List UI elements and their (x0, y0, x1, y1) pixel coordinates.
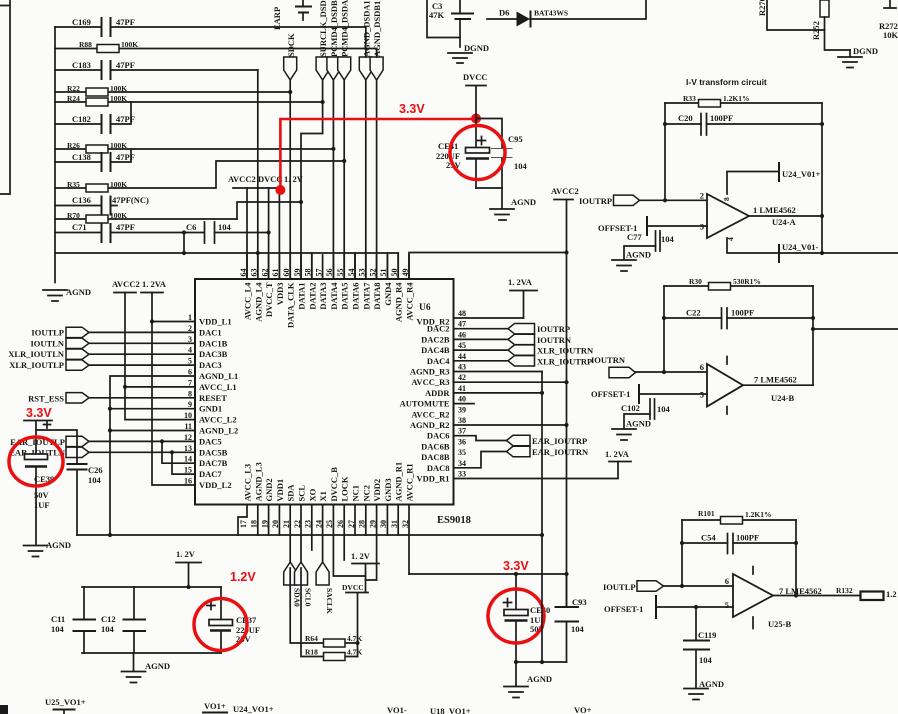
node U6 pin 48 VDD_R2 (416, 309, 466, 327)
capacitor C182 (55, 102, 135, 133)
node I-V transform circuit title (686, 77, 767, 87)
svg-text:42: 42 (458, 373, 466, 382)
node U24_V01+ (727, 163, 821, 194)
wire pin48 VDD_R2 (454, 317, 524, 319)
connector IOUTRN to pin6 (609, 367, 636, 377)
svg-text:3.3V: 3.3V (503, 559, 529, 573)
svg-text:VDD_R1: VDD_R1 (416, 474, 449, 484)
node U6 pin 49 AVCC_R4 (401, 255, 415, 321)
wire AGND rail bottom right (514, 660, 567, 664)
svg-text:EAR_IOUTRP: EAR_IOUTRP (532, 436, 587, 446)
svg-text:62: 62 (260, 269, 269, 277)
wire pin23 XO stub (311, 505, 313, 551)
svg-text:2: 2 (700, 191, 704, 201)
svg-text:DAC5B: DAC5B (199, 447, 228, 457)
svg-text:PCMD4_DSDB1: PCMD4_DSDB1 (329, 0, 339, 57)
svg-text:44: 44 (458, 352, 466, 361)
svg-text:DVCC_T: DVCC_T (264, 282, 274, 317)
node U6 pin 16 VDD_L2 (184, 477, 232, 491)
svg-text:C169: C169 (72, 17, 91, 27)
node U6 pin 60 DATA_CLK (282, 255, 296, 328)
svg-text:34: 34 (458, 459, 466, 468)
svg-text:AGND_L1: AGND_L1 (199, 371, 238, 381)
svg-text:IOUTRN: IOUTRN (537, 335, 572, 345)
connector EAR_IOUTLP (10, 436, 89, 447)
svg-text:4.7K: 4.7K (347, 634, 362, 643)
node U6 pin 36 DAC6B (421, 437, 466, 451)
connector SCL0 (295, 505, 313, 607)
capacitor C95 (476, 119, 528, 189)
wire U24A feedback right (820, 103, 824, 253)
svg-text:BAT43WS: BAT43WS (534, 9, 568, 18)
svg-text:RST_ESS: RST_ESS (28, 394, 64, 404)
node U6 pin 19 GND2 (260, 478, 274, 528)
node 1.2V power bottom left (176, 549, 201, 587)
node 1.2VA power mid right (605, 449, 631, 462)
svg-text:C138: C138 (72, 152, 91, 162)
svg-text:U6: U6 (419, 303, 431, 313)
node bottom labels U25_VO1+ (45, 697, 86, 714)
node left bus AGND (54, 27, 56, 283)
svg-text:IOUTRN: IOUTRN (591, 355, 626, 365)
svg-text:ADDR: ADDR (425, 388, 450, 398)
svg-text:1. 2V: 1. 2V (176, 549, 196, 559)
svg-text:C26: C26 (88, 465, 103, 475)
svg-text:58: 58 (304, 269, 313, 277)
capacitor C169 (55, 17, 366, 36)
svg-text:AVCC2: AVCC2 (112, 279, 140, 289)
ground AGND U24B (612, 419, 651, 441)
svg-text:R101: R101 (698, 509, 715, 518)
node U6 pin 54 DATA6 (347, 255, 361, 310)
svg-text:EARP: EARP (272, 7, 282, 30)
resistor R132 (836, 586, 884, 600)
svg-text:IOUTLP: IOUTLP (603, 582, 636, 592)
wire AGND vertical from pin43 (540, 372, 544, 663)
svg-text:DATA8: DATA8 (372, 283, 382, 310)
svg-text:47PF: 47PF (116, 152, 135, 162)
svg-text:AVCC_R4: AVCC_R4 (405, 282, 415, 321)
svg-text:1. 2VA: 1. 2VA (605, 449, 630, 459)
svg-text:VO1-: VO1- (387, 705, 407, 714)
svg-text:D6: D6 (499, 8, 509, 18)
wire U24B feedback left (662, 286, 666, 374)
node U6 pin 29 VDD2 (368, 479, 382, 528)
svg-text:GND1: GND1 (199, 404, 222, 414)
node AVCC2 label U24A (551, 186, 579, 200)
wire EAR_IOUTLP to DAC5 (89, 440, 195, 442)
svg-text:XLR_IOUTLN: XLR_IOUTLN (8, 349, 65, 359)
svg-text:VO1+: VO1+ (204, 701, 226, 711)
capacitor C26 (36, 430, 103, 535)
node power labels AVCC2 DVCC 1.2V (228, 174, 304, 188)
svg-text:DVCC: DVCC (342, 583, 364, 592)
node red 1.2 label right edge (886, 589, 897, 599)
node U6 pin 52 DATA8 (368, 255, 382, 310)
capacitor C3 (429, 0, 473, 47)
svg-text:DAC5: DAC5 (199, 436, 222, 446)
svg-text:DGND: DGND (853, 46, 878, 56)
svg-text:100PF: 100PF (736, 533, 759, 543)
svg-text:DVCC: DVCC (463, 72, 488, 82)
capacitor C12 (101, 587, 145, 653)
svg-text:VDD_L1: VDD_L1 (199, 317, 232, 327)
svg-text:AGND_R3: AGND_R3 (410, 367, 450, 377)
resistor R24 (55, 94, 323, 106)
svg-text:5: 5 (725, 600, 729, 610)
svg-text:AVCC_R3: AVCC_R3 (411, 377, 449, 387)
svg-text:3.3V: 3.3V (399, 102, 425, 116)
connector IOUTRP right (454, 324, 570, 335)
svg-text:DAC7: DAC7 (199, 469, 222, 479)
capacitor CE39 (25, 421, 55, 544)
wire AGND_DSDB1 to DATA7 (376, 49, 378, 280)
node bottom label VO+ (574, 705, 592, 714)
node U6 pin 4 DAC3B (188, 346, 228, 360)
node U6 pin 8 RESET (188, 389, 227, 403)
connector AGND_DSDA1 (359, 0, 372, 80)
svg-text:CE41: CE41 (438, 141, 458, 151)
svg-text:NC1: NC1 (351, 485, 361, 502)
svg-text:U24-A: U24-A (772, 217, 796, 227)
connector SDCK (284, 33, 297, 80)
node U6 pin 12 DAC5 (184, 433, 222, 447)
svg-text:DAC2B: DAC2B (421, 334, 450, 344)
wire pin26 LOCK stub (343, 505, 345, 561)
svg-text:AGND: AGND (626, 250, 651, 260)
node bottom label VO1- (387, 705, 407, 714)
svg-text:R22: R22 (67, 84, 80, 93)
svg-text:DATA4: DATA4 (329, 282, 339, 310)
node U6 pin 6 AGND_L1 (188, 368, 238, 382)
svg-text:XLR_IOUTLP: XLR_IOUTLP (9, 360, 64, 370)
svg-text:56: 56 (325, 269, 334, 277)
node U6 pin 35 DAC8B (421, 448, 466, 462)
svg-text:45: 45 (458, 341, 466, 350)
svg-text:U24-B: U24-B (771, 393, 794, 403)
svg-text:R35: R35 (67, 180, 80, 189)
node U6 pin 55 DATA5 (336, 255, 350, 310)
connector IOUTLP (31, 327, 89, 337)
svg-text:U25-B: U25-B (768, 619, 791, 629)
svg-text:DAC3: DAC3 (199, 360, 222, 370)
connector XLR_IOUTRN (454, 345, 594, 356)
svg-text:VDD2: VDD2 (372, 479, 382, 502)
wire IOUTLP to DAC1 (89, 331, 195, 333)
wire XLR_IOUTLP to DAC3 (89, 364, 195, 366)
svg-text:LOCK: LOCK (340, 476, 350, 501)
node U6 pin 3 DAC1B (188, 335, 228, 349)
node IOUTRN label (591, 355, 626, 365)
svg-text:DAC3B: DAC3B (199, 349, 228, 359)
connector EAR_IOUTLN (9, 447, 89, 458)
svg-text:59: 59 (293, 269, 302, 277)
capacitor C93 (556, 574, 587, 662)
wire U24A output (749, 215, 822, 217)
svg-text:C54: C54 (701, 533, 716, 543)
capacitor C6 (186, 222, 269, 243)
svg-text:104: 104 (101, 624, 115, 634)
svg-text:AGND: AGND (66, 287, 91, 297)
svg-text:43: 43 (458, 363, 466, 372)
svg-text:AGND_R2: AGND_R2 (410, 420, 450, 430)
wire AGND_DSDA1 to DATA6 (365, 27, 367, 279)
svg-text:C95: C95 (508, 134, 523, 144)
svg-text:100K: 100K (110, 84, 127, 93)
wire AVCC2 drop pin64 (246, 188, 248, 279)
wire pin38 AGND_R2 (454, 424, 567, 426)
capacitor C22 (664, 308, 813, 329)
svg-text:SCL0: SCL0 (303, 588, 312, 607)
wire AGND stem pins 6 9 11 (108, 376, 195, 535)
svg-text:DATA3: DATA3 (318, 283, 328, 310)
node IOUTLP label (603, 582, 636, 592)
node U6 pin 64 AVCC_L4 (239, 255, 253, 320)
node U6 pin 14 DAC7B (184, 455, 228, 469)
svg-text:39: 39 (458, 405, 466, 414)
svg-text:50V: 50V (34, 490, 50, 500)
svg-text:50: 50 (390, 269, 399, 277)
wire AGND rail y535 (77, 533, 542, 537)
wire PCMD4_DSDA1 to DATA4 (342, 80, 346, 279)
node OFFSET-1 U25B (604, 596, 733, 618)
op-amp U24-B (700, 357, 797, 415)
svg-text:DAC1B: DAC1B (199, 338, 228, 348)
svg-text:DATA2: DATA2 (307, 283, 317, 310)
wire pin17 jog to rail (238, 505, 247, 536)
svg-text:6: 6 (700, 362, 704, 372)
svg-text:AUTOMUTE: AUTOMUTE (400, 399, 450, 409)
node U6 pin 24 X1 (314, 491, 328, 528)
wire pin6 U24B (636, 371, 708, 373)
wire pin37 to EAR_IOUTRP (454, 436, 507, 441)
node U6 pin 56 DATA4 (325, 255, 339, 310)
capacitor C119 (684, 607, 716, 688)
node AVCC2 1.2VA labels left (112, 279, 167, 293)
svg-text:4.7K: 4.7K (347, 648, 362, 657)
svg-text:DATA7: DATA7 (361, 282, 371, 310)
svg-text:DATA6: DATA6 (351, 283, 361, 310)
wire 1.2VA stem to pins 1 16 (150, 293, 195, 486)
node U6 pin 42 AVCC_R3 (411, 373, 466, 387)
svg-text:C71: C71 (72, 222, 87, 232)
svg-text:100PF: 100PF (710, 113, 733, 123)
svg-text:AGND: AGND (46, 540, 71, 550)
svg-text:C22: C22 (686, 308, 701, 318)
connector PCMD4_DSDA1 (338, 0, 351, 80)
node top right corner stub (884, 0, 896, 8)
svg-text:CE40: CE40 (530, 605, 550, 615)
svg-text:U18_VO1+: U18_VO1+ (430, 706, 471, 714)
node U6 pin 5 DAC3 (188, 357, 222, 371)
wire U25B output (773, 595, 860, 597)
svg-text:51: 51 (379, 269, 388, 277)
svg-text:53: 53 (358, 269, 367, 277)
svg-text:R132: R132 (836, 586, 853, 595)
svg-text:R252: R252 (811, 21, 821, 40)
svg-text:DAC4: DAC4 (427, 356, 450, 366)
svg-text:64: 64 (239, 269, 248, 277)
svg-text:C93: C93 (572, 597, 587, 607)
svg-text:VDD1: VDD1 (275, 479, 285, 502)
svg-text:DATA5: DATA5 (340, 283, 350, 310)
svg-text:10K: 10K (883, 30, 898, 40)
svg-text:AGND_R4: AGND_R4 (394, 282, 404, 322)
node U6 pin 2 DAC1 (188, 324, 222, 338)
svg-text:47PF: 47PF (116, 222, 135, 232)
svg-text:DGND: DGND (464, 43, 489, 53)
ground AGND under CE41 (490, 188, 536, 220)
svg-text:104: 104 (657, 404, 671, 414)
node U6 pin 62 DVCC_T (260, 255, 274, 317)
svg-text:AGND: AGND (511, 197, 536, 207)
wire red 3.3V feed (275, 114, 481, 196)
svg-text:7 LME4562: 7 LME4562 (779, 586, 822, 596)
svg-text:C119: C119 (698, 630, 716, 640)
wire decoupling box top (82, 585, 221, 589)
svg-text:C183: C183 (72, 60, 91, 70)
svg-text:48: 48 (458, 309, 466, 318)
svg-text:104: 104 (218, 222, 232, 232)
wire IOUTLN to DAC1B (89, 342, 195, 344)
node U6 pin 53 DATA7 (358, 255, 372, 310)
svg-text:C182: C182 (72, 114, 91, 124)
capacitor CE40 (504, 574, 551, 662)
svg-text:AGND: AGND (699, 679, 724, 689)
svg-text:AVCC_L3: AVCC_L3 (243, 464, 253, 502)
svg-text:SDA: SDA (286, 484, 296, 502)
wire pin42 AVCC_R3 (454, 381, 567, 383)
node 1.2VA power pin48 (508, 277, 537, 318)
wire pins 18 19 20 to rail (258, 505, 280, 536)
svg-text:DAC1: DAC1 (199, 327, 222, 337)
wire AVCC2 stem to pins 7 10 (123, 293, 195, 420)
node U6 pin 1 VDD_L1 (188, 313, 232, 327)
node red 1.2V label (230, 570, 256, 584)
svg-text:SACLK: SACLK (325, 588, 334, 614)
svg-text:AVCC2: AVCC2 (228, 174, 256, 184)
wire pin49 AVCC_R4 to AVCC2 (409, 250, 569, 279)
connector IOUTLP to pin6 (637, 581, 664, 592)
wire C6 drop to bus (182, 230, 186, 255)
resistor R101 (682, 509, 796, 524)
red circle CE40 (488, 589, 544, 643)
svg-text:33: 33 (458, 470, 466, 479)
svg-text:AVCC_L4: AVCC_L4 (243, 282, 253, 320)
svg-text:SCL: SCL (297, 485, 307, 502)
svg-text:104: 104 (571, 624, 585, 634)
svg-text:1. 2V: 1. 2V (284, 174, 304, 184)
svg-text:SURCLK_DSDA: SURCLK_DSDA (318, 0, 328, 57)
svg-text:VDD_L2: VDD_L2 (199, 480, 232, 490)
wire XLR_IOUTLN to DAC3B (89, 353, 195, 355)
svg-text:104: 104 (51, 624, 65, 634)
node U6 pin 41 ADDR (425, 384, 466, 398)
node bottom label VO1+ (203, 701, 227, 713)
resistor R35 (55, 161, 344, 192)
node U6 pin 47 DAC2 (427, 320, 466, 334)
wire EAR_IOUTLN to DAC5B (89, 451, 195, 453)
svg-text:104: 104 (514, 161, 528, 171)
capacitor C71 (55, 222, 204, 242)
svg-text:NC2: NC2 (361, 485, 371, 502)
wire pin40 AUTOMUTE stub (454, 403, 474, 405)
ground AGND under CE40 (504, 662, 552, 698)
svg-text:1UF: 1UF (34, 500, 50, 510)
svg-text:U24_V01-: U24_V01- (782, 242, 819, 252)
svg-text:55: 55 (336, 269, 345, 277)
node U6 pin 31 AGND_R1 (390, 462, 404, 528)
svg-text:17: 17 (239, 520, 248, 528)
node OFFSET-1 U24B (591, 385, 707, 403)
svg-text:U24_V01+: U24_V01+ (782, 169, 821, 179)
capacitor C183 (55, 60, 258, 79)
svg-text:DAC4B: DAC4B (421, 345, 450, 355)
svg-text:C102: C102 (621, 403, 640, 413)
svg-text:U24_VO1+: U24_VO1+ (233, 704, 274, 714)
svg-text:XLR_IOUTRP: XLR_IOUTRP (537, 357, 592, 367)
node 3.3V label top (399, 102, 425, 116)
node U6 pin 44 DAC4 (427, 352, 466, 366)
connector XLR_IOUTRP (454, 356, 592, 367)
svg-text:AGND: AGND (145, 661, 170, 671)
wire U24A feedback left (663, 103, 667, 200)
svg-text:8: 8 (722, 197, 731, 201)
node U6 pin 25 DVCC_B (325, 467, 339, 528)
wire RST_ESS to RESET (89, 397, 195, 399)
connector IOUTLN (30, 338, 89, 348)
svg-text:47PF: 47PF (116, 60, 135, 70)
svg-text:40: 40 (458, 395, 466, 404)
ground DGND under C3 (448, 43, 489, 63)
ground DGND right (838, 46, 878, 68)
resistor R26 (55, 141, 333, 153)
ground AGND C119 (684, 679, 724, 700)
node U24_V01- (727, 238, 898, 262)
node U6 pin 46 DAC2B (421, 330, 466, 344)
red circle CE41 (450, 126, 505, 180)
wire pin34 to EAR_IOUTRN (454, 452, 507, 468)
svg-text:47PF(NC): 47PF(NC) (112, 195, 149, 205)
svg-text:1. 2V: 1. 2V (351, 551, 371, 561)
node U6 pin 10 AVCC_L2 (184, 411, 237, 425)
resistor R30 (664, 277, 813, 290)
diode D6 BAT43WS (487, 0, 646, 27)
wire PCMD4_DSDB1 to DATA3 (331, 80, 335, 279)
connector XLR_IOUTLN (8, 349, 89, 359)
node U6 pin 9 GND1 (188, 400, 222, 414)
svg-text:1 LME4562: 1 LME4562 (753, 205, 796, 215)
svg-text:C12: C12 (101, 614, 116, 624)
svg-text:AGND: AGND (527, 674, 552, 684)
node U6 pin 11 AGND_L2 (184, 422, 238, 436)
svg-text:54: 54 (347, 269, 356, 277)
node U6 pin 13 DAC5B (184, 444, 228, 458)
capacitor C102 (621, 399, 671, 428)
svg-text:AGND_L4: AGND_L4 (253, 282, 263, 322)
svg-text:61: 61 (271, 269, 280, 277)
svg-text:36: 36 (458, 437, 466, 446)
svg-text:DVCC: DVCC (258, 174, 283, 184)
wire pin33 VDD_R1 to 1.2VA (454, 462, 618, 479)
wire pin25 DVCC_B to node (333, 505, 365, 577)
svg-text:49: 49 (401, 269, 410, 277)
svg-text:AVCC_R1: AVCC_R1 (405, 463, 415, 501)
svg-text:PCMD4_DSDA1: PCMD4_DSDA1 (340, 0, 350, 57)
node U6 pin 20 VDD1 (271, 479, 285, 528)
wire AVCC2 vertical right (564, 200, 568, 608)
capacitor C20 (665, 113, 822, 135)
